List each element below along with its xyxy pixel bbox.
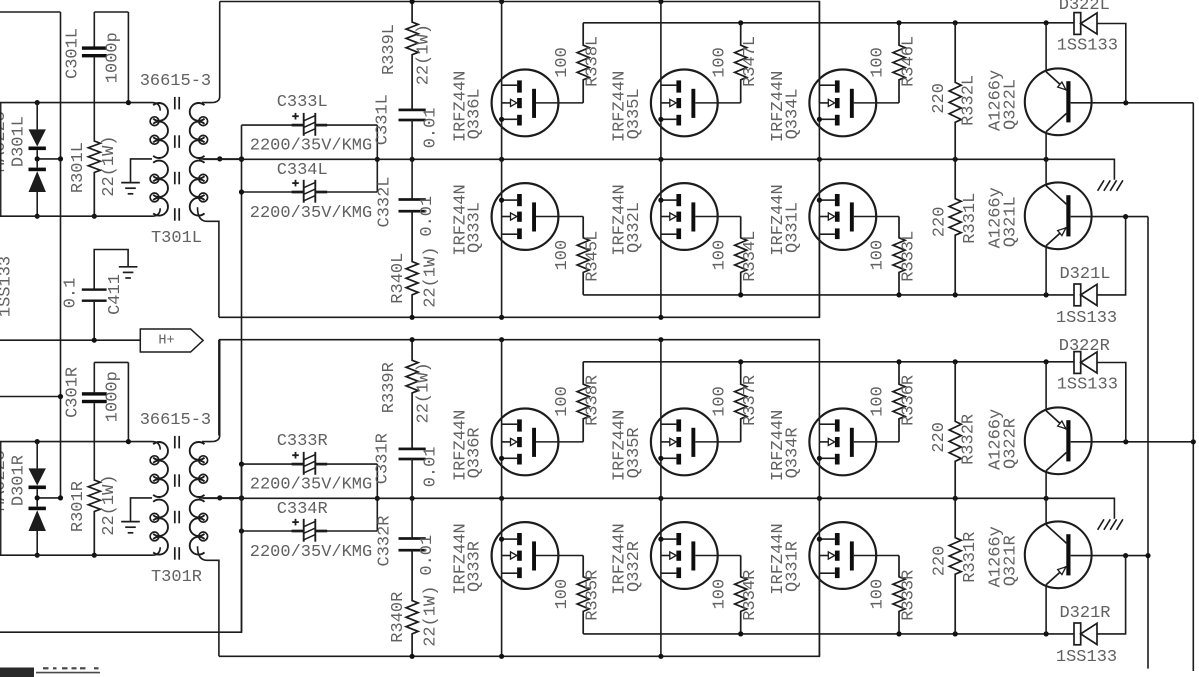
svg-text:R340R: R340R [389, 592, 408, 643]
svg-text:1SS133: 1SS133 [0, 256, 16, 317]
transistor Q322L A1266y [1045, 23, 1047, 72]
svg-text:100: 100 [553, 579, 572, 610]
svg-text:C332L: C332L [375, 176, 394, 227]
svg-text:R337R: R337R [741, 375, 760, 426]
resistor R334L 100 [735, 217, 747, 295]
svg-text:Q333R: Q333R [466, 541, 485, 592]
junction mid bus [410, 157, 415, 162]
svg-text:R339L: R339L [380, 24, 399, 75]
junction [35, 100, 40, 105]
junction [217, 156, 222, 161]
svg-text:R339R: R339R [380, 362, 399, 413]
svg-text:220: 220 [931, 207, 950, 238]
junction base [1123, 553, 1128, 558]
resistor R337R 100 [735, 362, 747, 442]
svg-text:R333L: R333L [900, 231, 919, 282]
resistor R339R 22(1W) [406, 340, 418, 449]
svg-text:1SS133: 1SS133 [1056, 648, 1117, 667]
svg-text:C331R: C331R [374, 433, 393, 484]
junction [126, 439, 131, 444]
svg-text:36615-3: 36615-3 [140, 411, 211, 430]
junction gate bus 1 [738, 20, 743, 25]
junction [58, 495, 63, 500]
junction gate bus 1 [953, 20, 958, 25]
diode D322R 1SS133 [1074, 352, 1081, 374]
transformer T301R secondary bottom lead [198, 546, 219, 656]
junction [35, 156, 40, 161]
capacitor C301R branch top link [94, 361, 128, 363]
transistor Q321R A1266y [1045, 498, 1047, 525]
junction mid bus [953, 157, 958, 162]
transistor Q331R IRFZ44N [809, 522, 876, 589]
resistor R332L 220 [949, 23, 961, 160]
svg-text:100: 100 [710, 240, 729, 271]
junction [217, 495, 222, 500]
svg-text:Q331R: Q331R [784, 541, 803, 592]
svg-text:22(1W): 22(1W) [421, 247, 440, 308]
transistor Q335L IRFZ44N [651, 70, 718, 137]
junction mid bus [817, 496, 822, 501]
junction gate bus 2 [738, 631, 743, 636]
svg-text:100: 100 [553, 47, 572, 78]
svg-text:C332R: C332R [375, 515, 394, 566]
junction base [1123, 100, 1128, 105]
svg-text:0.01: 0.01 [418, 535, 437, 576]
svg-text:R332R: R332R [959, 414, 978, 465]
junction base [1123, 439, 1128, 444]
svg-text:22(1W): 22(1W) [421, 586, 440, 647]
junction gate bus 2 [1044, 631, 1049, 636]
junction gate bus 1 [953, 359, 958, 364]
wire upper horizontal rail from left edge [0, 442, 160, 450]
svg-text:R347L: R347L [741, 36, 760, 87]
wire lower-left rail [0, 547, 160, 555]
svg-text:100: 100 [553, 386, 572, 417]
junction top bus [658, 0, 663, 4]
transistor Q335R IRFZ44N [651, 409, 718, 476]
wire vertical feed x=60.5 (top rail to D301 taps) [60, 12, 62, 498]
svg-text:36615-3: 36615-3 [140, 72, 211, 91]
junction C411/H+ wire [92, 338, 97, 343]
svg-text:22(1W): 22(1W) [100, 474, 119, 535]
capacitor C411 0.1 [94, 250, 128, 290]
svg-text:R338R: R338R [584, 375, 603, 426]
wire MOSFET column verticals row1 [501, 340, 503, 499]
wire link Q322L base to right edge and down to Q322R base [1192, 103, 1194, 671]
junction top bus [410, 0, 415, 4]
svg-text:Q322R: Q322R [1001, 418, 1020, 469]
resistor R345L 100 [577, 217, 589, 295]
transformer T301L secondary top lead [202, 2, 220, 103]
junction gate bus 2 [953, 631, 958, 636]
capacitor C333R 2200/35V/KMG [242, 463, 301, 465]
svg-text:22(1W): 22(1W) [100, 135, 119, 196]
transistor Q332R IRFZ44N [651, 522, 718, 589]
diode D321R 1SS133 [1074, 623, 1081, 645]
svg-text:R331R: R331R [961, 532, 980, 583]
svg-text:MA0225: MA0225 [0, 450, 10, 511]
svg-text:1000p: 1000p [104, 371, 123, 422]
svg-text:R345L: R345L [584, 231, 603, 282]
transistor Q333R IRFZ44N [492, 522, 559, 589]
wire D301L centre tap [37, 158, 60, 160]
junction top bus [410, 337, 415, 342]
junction x241.5/C334 wire [239, 189, 244, 194]
svg-text:100: 100 [869, 240, 888, 271]
junction top bus [658, 337, 663, 342]
svg-text:0.01: 0.01 [421, 107, 440, 148]
transformer T301L primary centre tap to ground [131, 159, 153, 183]
junction gate bus 1 [896, 20, 901, 25]
svg-text:2200/35V/KMG: 2200/35V/KMG [250, 137, 372, 156]
junction gate bus 2 [953, 292, 958, 297]
svg-text:C333L: C333L [277, 93, 328, 112]
resistor R301L 22(1W) [88, 141, 100, 217]
resistor R332R 220 [949, 362, 961, 499]
wire row2 gate bus [583, 633, 1074, 635]
resistor R340L 22(1W) [406, 211, 418, 317]
wire stub left at y=396.5 [0, 396, 61, 398]
chassis ground [1098, 519, 1104, 530]
resistor R339L 22(1W) [406, 2, 418, 110]
svg-text:H+: H+ [158, 333, 174, 348]
ground (3-bar) [121, 521, 140, 523]
svg-text:C334R: C334R [277, 500, 328, 519]
junction [58, 156, 63, 161]
junction top bus [499, 0, 504, 4]
junction [35, 439, 40, 444]
transistor Q334R IRFZ44N [809, 409, 876, 476]
transistor Q321L A1266y [1045, 159, 1047, 186]
junction mid bus [953, 496, 958, 501]
resistor R333L 100 [893, 217, 905, 295]
resistor R346L 100 [893, 23, 905, 103]
junction [1145, 553, 1150, 558]
svg-text:2200/35V/KMG: 2200/35V/KMG [250, 204, 372, 223]
wire base Q321L [1071, 216, 1148, 218]
wire top-left rail [0, 11, 61, 13]
svg-text:R332L: R332L [959, 75, 978, 126]
capacitor C301L [93, 12, 95, 47]
capacitor C334L 2200/35V/KMG [242, 191, 301, 193]
wire top drain bus [219, 340, 820, 442]
svg-text:0.01: 0.01 [418, 196, 437, 237]
svg-text:Q336L: Q336L [466, 88, 485, 139]
transformer T301L secondary winding [190, 103, 205, 121]
svg-text:22(1W): 22(1W) [414, 24, 433, 85]
junction x241.5/C333 wire [239, 462, 244, 467]
footer text fragments (cropped) [36, 672, 100, 674]
resistor R336R 100 [893, 362, 905, 442]
svg-text:D321L: D321L [1059, 265, 1110, 284]
junction mid bus [658, 496, 663, 501]
wire base Q321R [1071, 555, 1148, 557]
junction [126, 100, 131, 105]
junction bottom bus [658, 315, 663, 320]
svg-text:220: 220 [930, 83, 949, 114]
junction mid bus [499, 496, 504, 501]
wire D301R centre tap [37, 497, 60, 499]
resistor R331R 220 [949, 498, 961, 634]
ground (3-bar) [121, 182, 140, 184]
junction gate bus 2 [1044, 292, 1049, 297]
wire box right edge [376, 125, 378, 192]
svg-text:T301L: T301L [151, 229, 202, 248]
junction top bus [499, 337, 504, 342]
junction gate bus 2 [896, 292, 901, 297]
svg-text:R340L: R340L [389, 253, 408, 304]
junction mid bus [658, 157, 663, 162]
transformer T301L primary winding [153, 103, 168, 121]
resistor R333R 100 [893, 556, 905, 634]
junction [92, 553, 97, 558]
capacitor C333L 2200/35V/KMG [242, 124, 301, 126]
junction [1191, 439, 1196, 444]
wire right leg of C301R branch [127, 362, 129, 441]
resistor R301R 22(1W) [88, 480, 100, 556]
junction bottom bus [499, 654, 504, 659]
wire link Q321L base down to Q321R base wire [1147, 217, 1149, 669]
svg-text:Q331L: Q331L [784, 202, 803, 253]
transistor Q334L IRFZ44N [809, 70, 876, 137]
svg-text:R301R: R301R [69, 481, 88, 532]
capacitor C332R 0.01 [411, 498, 413, 538]
svg-text:R331L: R331L [961, 193, 980, 244]
svg-text:100: 100 [710, 579, 729, 610]
transformer T301R primary winding [153, 442, 168, 460]
svg-text:C411: C411 [106, 274, 125, 315]
svg-text:R335R: R335R [584, 570, 603, 621]
svg-text:22(1W): 22(1W) [414, 362, 433, 423]
wire vertical x=241.5 [241, 125, 243, 632]
ground (3-bar) [119, 266, 138, 268]
bottom-left black bar (image crop artifact) [0, 668, 34, 677]
junction mid bus [410, 496, 415, 501]
svg-text:D321R: D321R [1059, 604, 1110, 623]
svg-text:1000p: 1000p [104, 32, 123, 83]
chassis ground [1098, 180, 1104, 191]
junction box right/mid [375, 496, 380, 501]
resistor R335R 100 [577, 556, 589, 634]
junction [35, 495, 40, 500]
junction [239, 156, 244, 161]
svg-text:C334L: C334L [277, 161, 328, 180]
junction stub/vertical [58, 394, 63, 399]
junction gate bus 1 [1044, 20, 1049, 25]
svg-text:0.01: 0.01 [421, 446, 440, 487]
svg-text:0.1: 0.1 [62, 278, 81, 309]
junction bottom bus [499, 315, 504, 320]
transformer T301R secondary centre tap wire [199, 497, 242, 499]
diode D322L 1SS133 [1074, 13, 1081, 35]
svg-text:D322L: D322L [1059, 0, 1110, 15]
svg-text:T301R: T301R [151, 568, 202, 587]
transformer T301R primary centre tap to ground [131, 498, 153, 522]
transformer T301R core [174, 436, 176, 449]
transformer T301L core [174, 97, 176, 110]
svg-text:D322R: D322R [1059, 337, 1110, 356]
svg-text:R334L: R334L [741, 231, 760, 282]
wire base Q322R [1071, 441, 1194, 443]
junction gate bus 1 [896, 359, 901, 364]
transistor Q336L IRFZ44N [492, 70, 559, 137]
wire row1 gate bus [583, 361, 1074, 363]
svg-text:100: 100 [869, 47, 888, 78]
wire mid bus [203, 498, 1114, 519]
svg-text:Q334L: Q334L [784, 88, 803, 139]
svg-text:D301R: D301R [10, 455, 29, 506]
wire right leg of C301L branch [127, 12, 129, 103]
wire lower-left rail [0, 208, 160, 216]
svg-text:Q335R: Q335R [625, 427, 644, 478]
capacitor C334R 2200/35V/KMG [242, 530, 301, 532]
svg-text:R334R: R334R [741, 570, 760, 621]
junction base [1123, 214, 1128, 219]
net flag H+ [140, 329, 203, 352]
svg-text:1SS133: 1SS133 [1057, 37, 1118, 56]
svg-text:2200/35V/KMG: 2200/35V/KMG [250, 476, 372, 495]
transistor Q333L IRFZ44N [492, 183, 559, 250]
resistor R331L 220 [949, 159, 961, 295]
svg-text:100: 100 [869, 386, 888, 417]
junction bottom bus [658, 654, 663, 659]
resistor R340R 22(1W) [406, 550, 418, 656]
transformer T301R secondary top lead [202, 340, 220, 442]
svg-text:MA0225: MA0225 [0, 111, 10, 172]
wire upper horizontal rail from left edge [0, 103, 160, 111]
svg-text:C331L: C331L [374, 94, 393, 145]
junction gate bus 1 [1044, 359, 1049, 364]
junction mid bus [817, 157, 822, 162]
svg-text:Q322L: Q322L [1001, 79, 1020, 130]
svg-text:Q321R: Q321R [1001, 535, 1020, 586]
svg-text:C333R: C333R [277, 432, 328, 451]
svg-text:R336R: R336R [900, 375, 919, 426]
svg-text:100: 100 [869, 579, 888, 610]
dual diode D301R [36, 442, 38, 469]
wire MOSFET column verticals row1 [501, 2, 503, 160]
svg-text:R346L: R346L [900, 36, 919, 87]
junction [239, 495, 244, 500]
junction mid bus [1044, 496, 1049, 501]
diode D321L 1SS133 [1074, 284, 1081, 306]
svg-text:Q332L: Q332L [625, 202, 644, 253]
wire row2 gate bus [583, 294, 1074, 296]
junction gate bus 2 [738, 292, 743, 297]
svg-text:1SS133: 1SS133 [1057, 376, 1118, 395]
transformer T301L secondary centre tap wire [199, 158, 242, 160]
junction bottom bus [410, 315, 415, 320]
svg-text:100: 100 [553, 240, 572, 271]
transformer T301R secondary winding [190, 442, 205, 460]
svg-text:1SS133: 1SS133 [1056, 309, 1117, 328]
capacitor C331R 0.01 [399, 448, 426, 451]
wire MOSFET column verticals row2 [501, 498, 503, 656]
junction [92, 214, 97, 219]
svg-text:R301L: R301L [69, 142, 88, 193]
transistor Q331L IRFZ44N [809, 183, 876, 250]
svg-text:100: 100 [710, 386, 729, 417]
svg-text:R338L: R338L [584, 36, 603, 87]
capacitor C332L 0.01 [411, 159, 413, 199]
junction x241.5/mid [239, 157, 244, 162]
svg-text:2200/35V/KMG: 2200/35V/KMG [250, 543, 372, 562]
svg-text:100: 100 [710, 47, 729, 78]
junction mid bus [499, 157, 504, 162]
wire row1 gate bus [583, 22, 1074, 24]
svg-text:C301L: C301L [64, 28, 83, 79]
wire left edge stub [0, 103, 2, 217]
svg-text:Q333L: Q333L [466, 202, 485, 253]
junction box right/mid [375, 157, 380, 162]
wire box right edge [376, 464, 378, 531]
junction [35, 553, 40, 558]
resistor R338R 100 [577, 362, 589, 442]
transistor Q322R A1266y [1045, 362, 1047, 411]
svg-text:Q336R: Q336R [466, 427, 485, 478]
wire mid bus [203, 159, 1114, 180]
junction mid bus [1044, 157, 1049, 162]
junction x241.5/C334 wire [239, 528, 244, 533]
wire top drain bus [220, 2, 820, 103]
svg-text:Q321L: Q321L [1001, 196, 1020, 247]
svg-text:Q334R: Q334R [784, 427, 803, 478]
resistor R334R 100 [735, 556, 747, 634]
wire R-channel vertical x=241.5 lower tail to left edge [0, 464, 242, 632]
capacitor C331L 0.01 [399, 109, 426, 112]
wire H+ net [0, 339, 140, 341]
junction x241.5/mid [239, 496, 244, 501]
wire bottom bus [219, 217, 820, 318]
dual diode D301L [36, 103, 38, 130]
junction gate bus 1 [738, 359, 743, 364]
transformer T301L secondary bottom lead [198, 207, 219, 317]
transistor Q332L IRFZ44N [651, 183, 718, 250]
svg-text:R333R: R333R [900, 570, 919, 621]
junction [35, 214, 40, 219]
transistor Q336R IRFZ44N [492, 409, 559, 476]
resistor R338L 100 [577, 23, 589, 103]
junction bottom bus [410, 654, 415, 659]
wire base Q322L [1071, 102, 1194, 104]
svg-text:220: 220 [931, 546, 950, 577]
svg-text:C301R: C301R [64, 367, 83, 418]
wire left edge stub [0, 442, 2, 556]
svg-text:Q332R: Q332R [625, 541, 644, 592]
svg-text:D301L: D301L [10, 116, 29, 167]
svg-text:220: 220 [930, 422, 949, 453]
capacitor C301R [93, 362, 95, 392]
svg-text:Q335L: Q335L [625, 88, 644, 139]
resistor R347L 100 [735, 23, 747, 103]
capacitor C301L branch top link [94, 11, 128, 13]
junction gate bus 2 [896, 631, 901, 636]
wire MOSFET column verticals row2 [501, 159, 503, 317]
wire bottom bus [219, 556, 820, 657]
